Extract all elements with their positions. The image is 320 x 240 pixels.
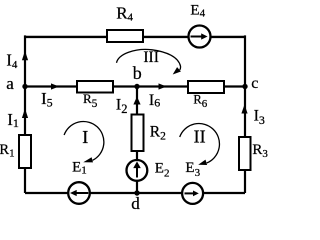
- node c: [242, 84, 247, 89]
- arrow I3: [241, 105, 247, 114]
- svg-text:III: III: [143, 49, 159, 66]
- loop III arrow: [117, 49, 181, 74]
- wire main horizontal a-b-c: [25, 85, 245, 87]
- source E4: [189, 26, 211, 48]
- resistor R1: [19, 135, 31, 168]
- arrow I6: [159, 83, 167, 89]
- arrow I2: [133, 97, 140, 105]
- resistor R5: [77, 81, 113, 93]
- node a: [22, 84, 27, 89]
- svg-text:b: b: [133, 63, 142, 83]
- resistor R2: [132, 115, 144, 152]
- svg-text:II: II: [194, 127, 206, 147]
- arrow I4: [22, 51, 28, 60]
- resistor R4: [107, 30, 143, 42]
- wire right vertical: [244, 35, 246, 193]
- source E1: [68, 182, 90, 204]
- svg-text:a: a: [6, 74, 14, 93]
- node b: [134, 84, 139, 89]
- loop I arrow: [64, 121, 104, 162]
- resistor R6: [188, 81, 224, 93]
- node d: [134, 190, 139, 195]
- arrow I5: [51, 83, 59, 89]
- loop II arrow: [180, 124, 220, 165]
- svg-text:I: I: [82, 127, 88, 147]
- svg-text:c: c: [251, 75, 258, 92]
- arrow I1: [22, 109, 28, 119]
- source E3: [182, 183, 203, 204]
- source E2: [126, 160, 147, 181]
- wire bottom: [25, 192, 245, 194]
- wire top a-c: [25, 36, 245, 38]
- wire middle b-d: [136, 87, 138, 194]
- wire left vertical: [24, 35, 26, 193]
- svg-text:d: d: [131, 194, 140, 212]
- resistor R3: [239, 137, 251, 170]
